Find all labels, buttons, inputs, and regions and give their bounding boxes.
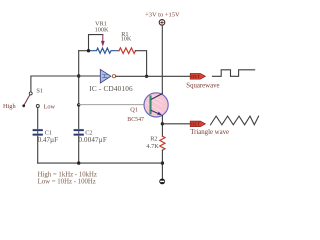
squarewave glyph [213, 70, 255, 77]
svg-text:High = 1kHz - 10kHz: High = 1kHz - 10kHz [38, 171, 97, 178]
power terminal +V [159, 20, 165, 26]
wire R2 to ground rail [161, 150, 163, 178]
svg-text:Low = 10Hz - 100Hz: Low = 10Hz - 100Hz [38, 179, 96, 186]
svg-text:OUT: OUT [191, 74, 200, 79]
svg-text:BC547: BC547 [127, 117, 144, 123]
wire emitter to triangle out [162, 123, 190, 125]
inverter output bubble [112, 75, 115, 78]
capacitor C2 [74, 129, 84, 131]
svg-text:+3V to +15V: +3V to +15V [145, 11, 180, 18]
svg-text:0.47µF: 0.47µF [38, 136, 58, 144]
svg-text:10K: 10K [121, 36, 132, 43]
svg-text:Low: Low [44, 103, 56, 110]
potentiometer VR1 body [89, 48, 120, 53]
output badge squarewave [190, 74, 205, 80]
wire C2 vertical (input node down to C2) [78, 51, 80, 163]
svg-text:0.0047µF: 0.0047µF [79, 136, 107, 144]
svg-text:OUT: OUT [191, 121, 200, 126]
wire Q1 emitter down [161, 116, 163, 137]
output badge triangle [190, 121, 205, 127]
svg-text:S1: S1 [36, 87, 43, 94]
svg-text:R2: R2 [150, 135, 157, 142]
svg-text:IC - CD40106: IC - CD40106 [89, 85, 133, 93]
transistor Q1 collector stroke [151, 94, 162, 100]
svg-text:Squarewave: Squarewave [186, 83, 219, 90]
transistor Q1 body [144, 93, 168, 117]
inverter hysteresis mark [103, 75, 108, 78]
wire supply to Q1 collector [161, 25, 163, 94]
switch contact High [22, 104, 25, 107]
node C2 rail junction [77, 161, 80, 164]
ground terminal -V [159, 179, 165, 185]
transistor Q1 emitter stroke with arrow [151, 110, 159, 114]
wire R1 to inverter output (feedback) [136, 51, 147, 77]
svg-text:High: High [3, 103, 16, 110]
wire Q1 base [79, 104, 144, 106]
inverter U1 CD40106 [100, 69, 111, 83]
resistor R2 [160, 136, 165, 150]
wire inverter input row [31, 76, 100, 92]
node inverter input junction [77, 74, 80, 77]
wire bottom rail [38, 162, 163, 164]
wire Low contact to C1 [37, 108, 39, 164]
svg-text:Q1: Q1 [130, 106, 138, 113]
node Q1 base junction [77, 103, 80, 106]
switch S1 pole [29, 92, 32, 95]
svg-text:Triangle wave: Triangle wave [190, 129, 229, 136]
node emitter junction [161, 122, 164, 125]
node rail-R2 junction [161, 161, 164, 164]
capacitor C1 [33, 129, 43, 131]
wire VR1 wiper loop [89, 35, 103, 51]
transistor Q1 base bar [149, 96, 151, 113]
wire top jog from C2 rail to VR1 left junction [79, 50, 89, 52]
potentiometer VR1 wiper arrow [102, 35, 104, 42]
triangle wave glyph [211, 116, 259, 125]
svg-text:4.7K: 4.7K [146, 143, 159, 150]
resistor R1 [119, 48, 136, 54]
svg-text:100K: 100K [95, 27, 109, 34]
wire inverter output row [116, 75, 190, 77]
switch contact Low [36, 105, 39, 108]
switch S1 lever [24, 95, 30, 105]
node feedback junction [145, 75, 148, 78]
node VR1 left junction [87, 49, 90, 52]
